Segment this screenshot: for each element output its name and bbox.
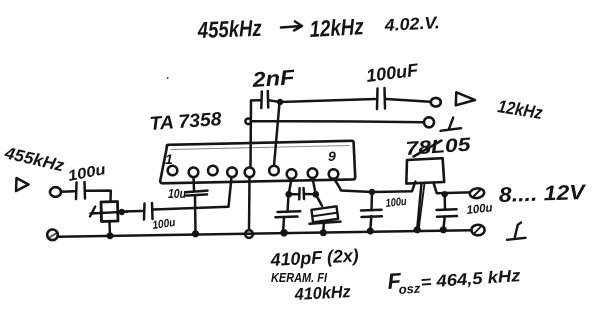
- pin 9: [329, 169, 339, 179]
- junction pin8 node: [312, 191, 319, 198]
- pin 4: [227, 168, 237, 178]
- junction C3 on rail: [192, 230, 199, 237]
- svg-text:4.02.V.: 4.02.V.: [383, 13, 440, 35]
- wire C2 to pin4: [154, 178, 232, 210]
- wire pin7 down: [289, 179, 292, 194]
- wire tap to output terminal 2: [251, 121, 423, 122]
- junction filter-ground on rail: [107, 232, 114, 239]
- wire C8 to rail: [370, 216, 371, 231]
- wire filter output: [121, 210, 142, 213]
- wire Vcc node to regulator: [372, 182, 415, 193]
- terminal +V supply: [469, 187, 485, 199]
- pin 3: [208, 166, 218, 176]
- wire C9 to rail: [443, 217, 445, 230]
- stray ink dot: [167, 77, 169, 79]
- stroke through label: [414, 141, 442, 157]
- voltage regulator U2 78L05: [406, 158, 444, 183]
- junction pin7 node: [285, 191, 292, 198]
- wire pin6 up to junction: [274, 103, 280, 166]
- ceramic filter FI 410kHz: [90, 202, 127, 222]
- terminal input bottom: [47, 230, 58, 241]
- terminal input top: [50, 187, 61, 197]
- wire pin5 down to rail: [248, 177, 251, 230]
- title text 455kHz -> 12kHz 4.02.V.: [196, 13, 440, 43]
- junction C9 tap: [442, 191, 448, 197]
- node tap (open) on pin5 riser: [245, 119, 251, 125]
- svg-text:2nF: 2nF: [251, 66, 297, 92]
- capacitor C8 100u: [361, 210, 382, 217]
- wire filter ground leg: [108, 222, 111, 236]
- svg-text:100u: 100u: [67, 161, 108, 185]
- svg-text:10u: 10u: [168, 187, 186, 201]
- terminal output top: [431, 98, 441, 107]
- terminal output 2: [424, 117, 434, 127]
- pin 8: [308, 168, 318, 178]
- svg-text:12kHz: 12kHz: [309, 13, 365, 42]
- ground symbol (supply): [507, 223, 526, 240]
- wire node to C8: [370, 192, 373, 210]
- wire pin5 up to 2nF: [249, 101, 252, 168]
- svg-text:410kHz: 410kHz: [293, 282, 351, 304]
- junction C9 on rail: [440, 226, 447, 233]
- wire 2nF to C5: [269, 99, 375, 102]
- junction X1 on rail: [320, 229, 327, 236]
- wire node7 down to C7: [286, 195, 289, 211]
- capacitor C7 410pF: [276, 211, 301, 217]
- svg-text:100u: 100u: [385, 196, 407, 210]
- wire C3 to rail: [194, 196, 197, 234]
- node pin5 on rail (open): [245, 230, 253, 238]
- svg-text:455kHz: 455kHz: [196, 15, 262, 43]
- svg-text:100uF: 100uF: [365, 60, 420, 86]
- wire pin2 down: [192, 177, 195, 190]
- pin 7: [287, 169, 297, 179]
- label F_osz = 464,5 kHz: [387, 266, 522, 297]
- junction Vcc node: [369, 189, 375, 195]
- svg-text:9: 9: [328, 148, 336, 164]
- pin 2: [189, 168, 199, 178]
- wire input to C1: [62, 190, 75, 193]
- capacitor C6 (between pin7 and pin8 nodes): [299, 188, 304, 199]
- wire C7 to rail: [283, 218, 284, 233]
- wire X1 to rail: [322, 223, 325, 233]
- ceramic resonator X1 410kHz: [310, 206, 341, 224]
- svg-text:410pF (2x): 410pF (2x): [269, 245, 359, 270]
- wire tap to C9: [443, 194, 446, 210]
- capacitor C1 100u: [76, 182, 85, 199]
- junction top wire: [277, 99, 283, 105]
- capacitor C5 100uF: [377, 88, 385, 109]
- pin 5: [245, 168, 255, 178]
- output triangle marker: [456, 92, 475, 105]
- capacitor C2 100u: [144, 203, 153, 220]
- svg-text:455kHz: 455kHz: [2, 143, 66, 175]
- svg-text:100u: 100u: [152, 217, 176, 232]
- ground rail wire: [58, 230, 472, 237]
- svg-text:osz: osz: [398, 280, 421, 297]
- ground symbol (output): [441, 118, 462, 131]
- junction regulator gnd on rail: [414, 226, 421, 233]
- wire pin9 to Vcc node: [334, 179, 372, 192]
- svg-text:100u: 100u: [466, 200, 494, 217]
- arrow in title: [281, 22, 302, 31]
- pin 6: [269, 166, 279, 176]
- wire pin8 down: [313, 178, 323, 206]
- wire riser top to 2nF left plate: [251, 99, 261, 102]
- terminal supply ground: [471, 225, 484, 236]
- input triangle marker: [16, 178, 29, 191]
- junction filter output: [119, 209, 125, 215]
- wire C6 to node8: [305, 193, 316, 196]
- wire C5 to output terminal: [386, 99, 430, 102]
- IC U1 TA7358 body: [160, 141, 355, 184]
- svg-text:TA 7358: TA 7358: [149, 109, 223, 135]
- pin 1: [168, 166, 178, 176]
- wire C1 to filter: [86, 191, 111, 202]
- wire regulator output: [434, 183, 470, 193]
- capacitor C9 100u: [437, 209, 458, 217]
- svg-text:12kHz: 12kHz: [496, 96, 544, 123]
- capacitor C4 2nF: [261, 91, 268, 108]
- wire regulator ground leg: [417, 183, 424, 229]
- junction C7 on rail: [280, 229, 288, 237]
- svg-text:8.... 12V: 8.... 12V: [498, 181, 587, 207]
- wire node7 to C6: [289, 193, 299, 196]
- capacitor C3 10u: [185, 191, 208, 196]
- svg-text:= 464,5 kHz: = 464,5 kHz: [420, 266, 522, 292]
- junction C8 on rail: [367, 227, 374, 234]
